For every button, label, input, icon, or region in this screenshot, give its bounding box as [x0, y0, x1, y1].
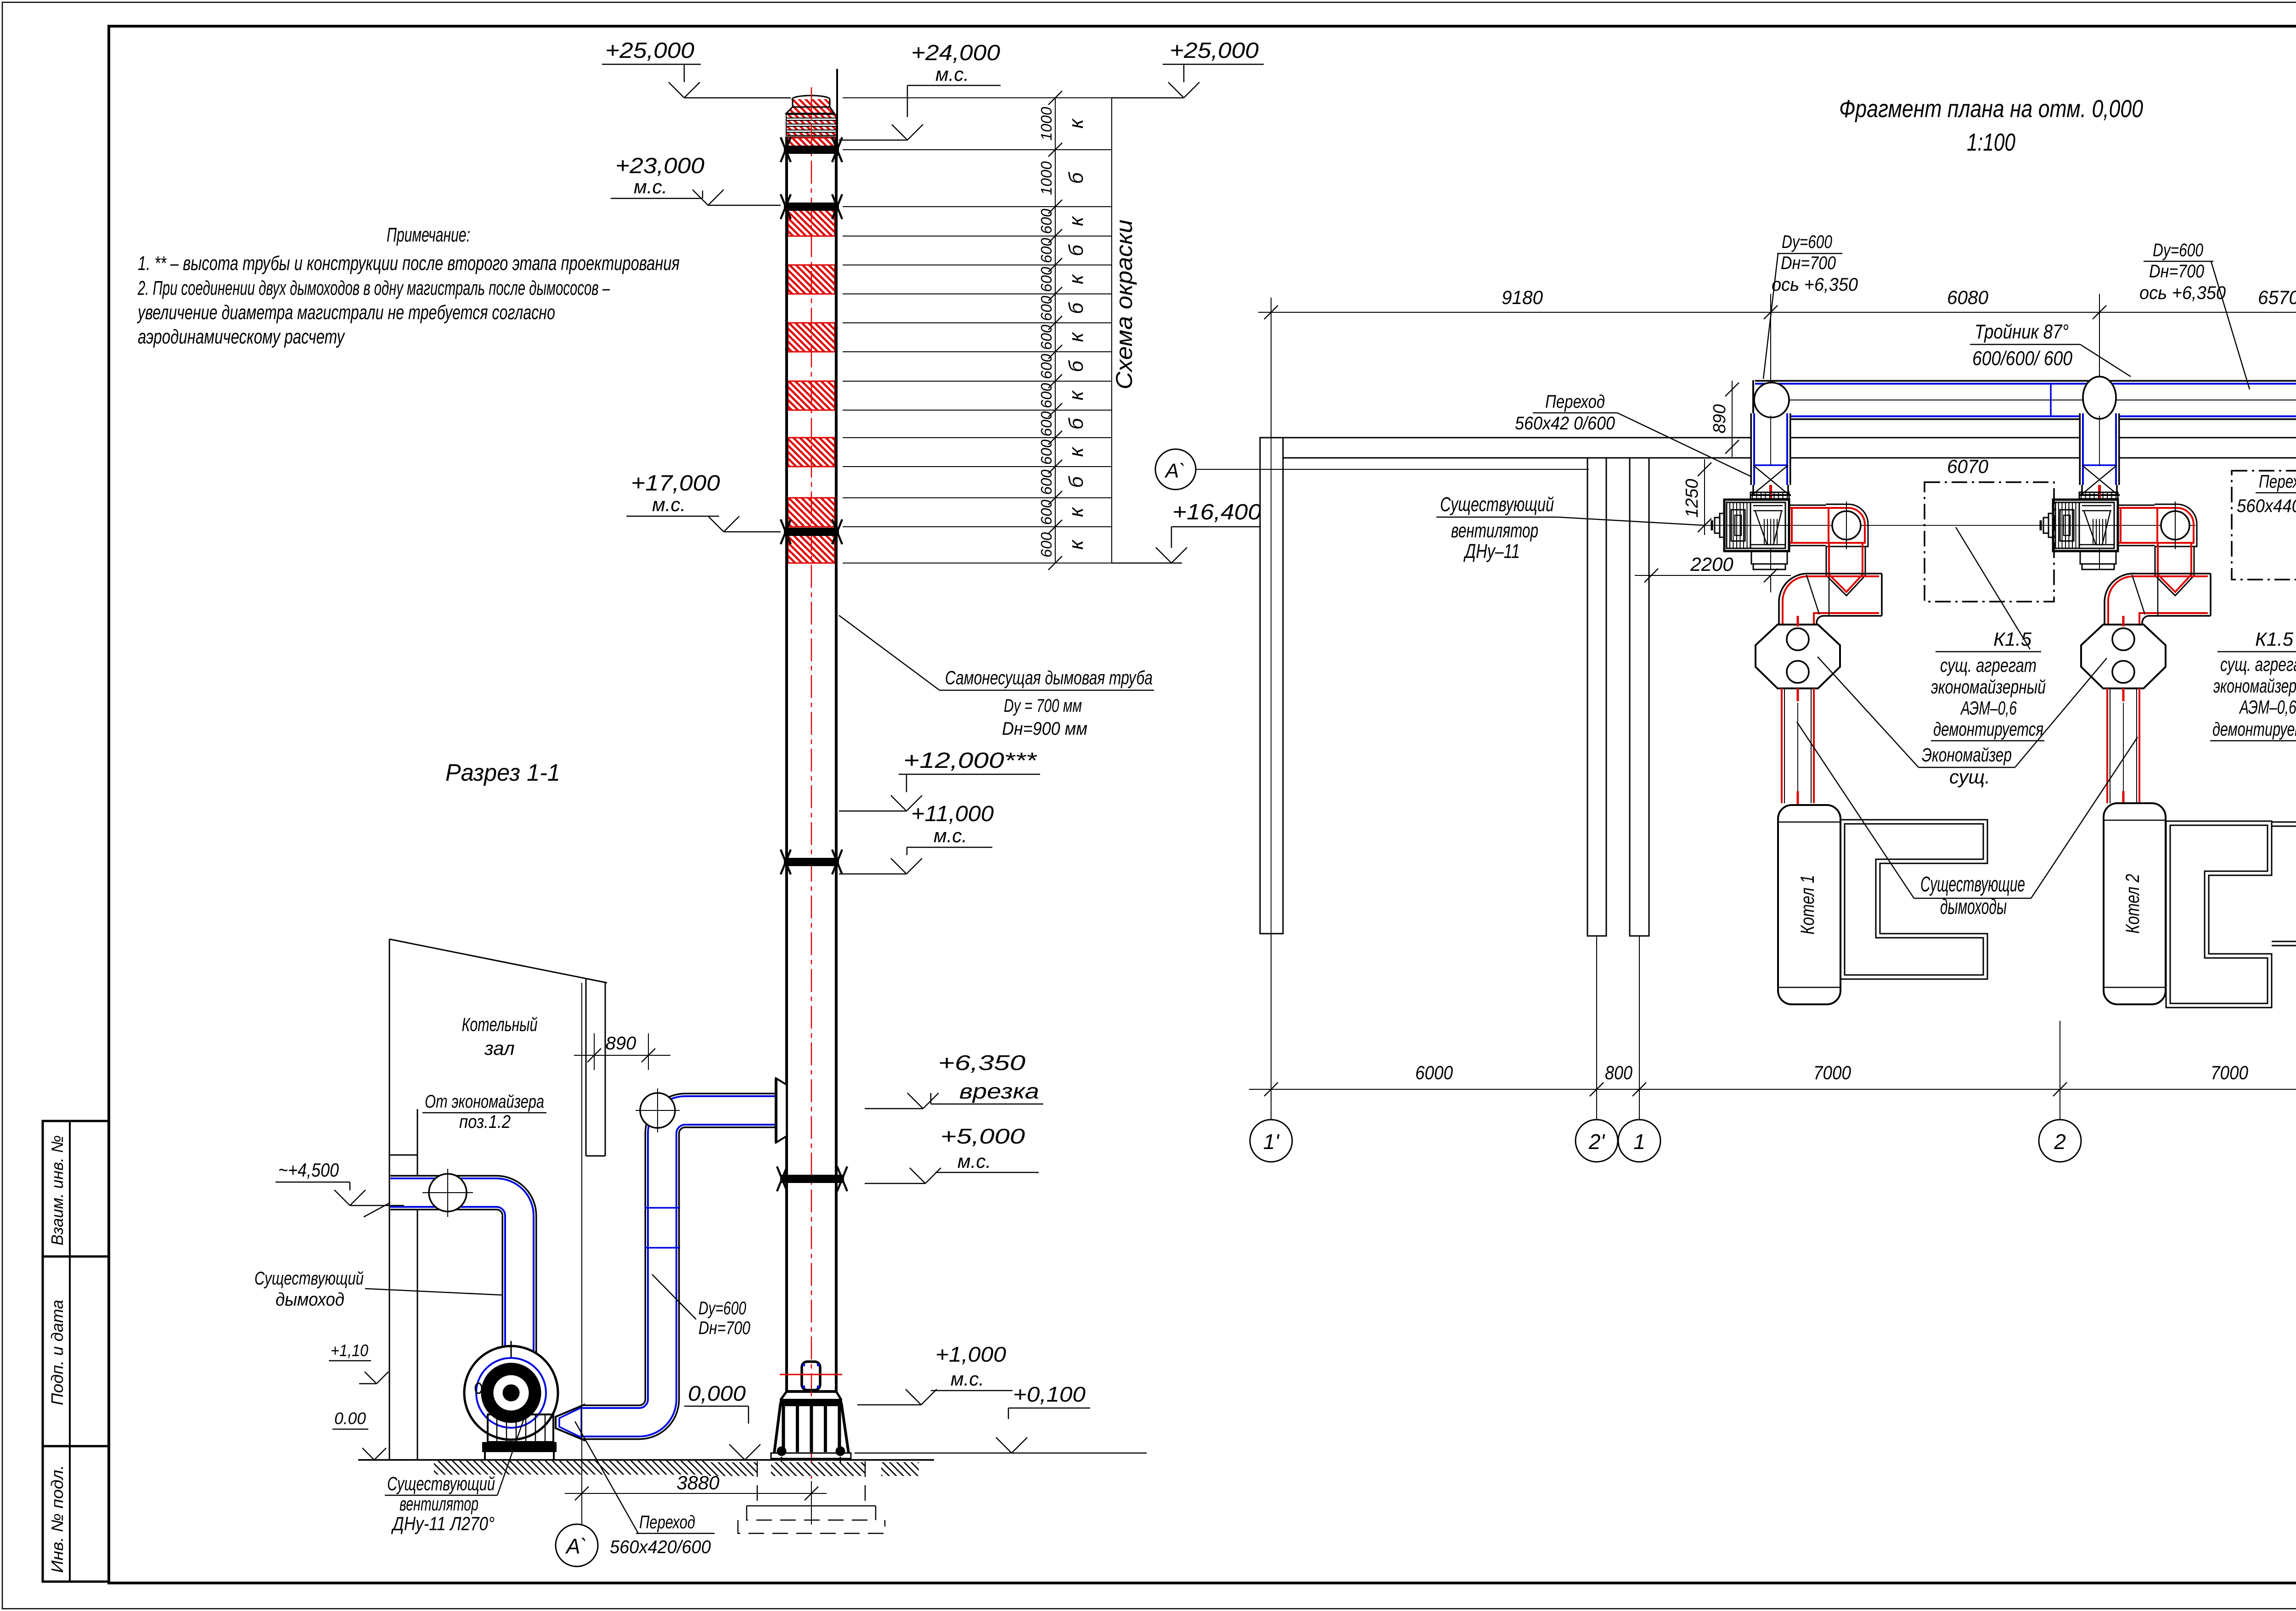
svg-text:Разрез 1-1: Разрез 1-1	[445, 760, 560, 786]
svg-text:Переход: Переход	[1545, 392, 1605, 412]
dim 2200 (plan)	[1635, 575, 1791, 576]
svg-text:Переход: Переход	[639, 1512, 695, 1532]
duct joint ticks (plan)	[2050, 383, 2052, 417]
svg-text:890: 890	[1710, 404, 1729, 433]
economizer octagon	[2081, 625, 2166, 688]
svg-text:600/600/ 600: 600/600/ 600	[1972, 347, 2072, 370]
svg-text:560x42 0/600: 560x42 0/600	[1515, 413, 1615, 434]
svg-text:600: 600	[1038, 383, 1055, 408]
chimney base lattice legs	[782, 1406, 785, 1452]
chimney access door	[802, 1362, 820, 1390]
svg-text:600: 600	[1038, 295, 1055, 321]
red duct from fan to elbow	[2119, 505, 2155, 506]
red elbow box to economizer	[1779, 574, 1882, 625]
chimney top cap: rim ellipse	[792, 96, 830, 103]
svg-text:Подп. и дата: Подп. и дата	[48, 1300, 67, 1405]
svg-text:к: к	[1065, 332, 1087, 342]
svg-text:Dн=700: Dн=700	[1781, 253, 1836, 273]
svg-text:560x440/600: 560x440/600	[2237, 496, 2296, 516]
chimney centerline (red dash-dot)	[811, 87, 812, 1481]
svg-text:экономайзерный: экономайзерный	[1931, 676, 2046, 698]
svg-text:Dн=700: Dн=700	[698, 1318, 750, 1338]
svg-text:6000: 6000	[1415, 1062, 1453, 1083]
svg-text:ось +6,350: ось +6,350	[2139, 283, 2226, 303]
svg-text:м.с.: м.с.	[935, 63, 969, 85]
duct joint ticks	[645, 1207, 680, 1209]
svg-text:Взаим. инв. №: Взаим. инв. №	[48, 1135, 67, 1245]
fan bottom flange	[1751, 551, 1787, 564]
dim 3880 (section, foundation)	[811, 1481, 812, 1509]
svg-text:+24,000: +24,000	[911, 41, 1000, 65]
main horizontal flue duct to chimney (blue)	[1755, 257, 2296, 400]
svg-text:600: 600	[1038, 469, 1055, 495]
left wall bar	[1260, 438, 1283, 934]
chimney base band	[780, 1399, 842, 1406]
svg-text:дымоход: дымоход	[276, 1290, 344, 1310]
svg-text:к: к	[1065, 274, 1087, 284]
duct axis centerline	[1771, 400, 2296, 400]
elbow circle at riser 1	[1754, 383, 1789, 417]
svg-text:+11,000: +11,000	[911, 802, 994, 826]
svg-text:600: 600	[1038, 411, 1055, 437]
svg-text:Существующие: Существующие	[1920, 872, 2025, 896]
svg-text:+25,000: +25,000	[605, 39, 694, 63]
dashed square Perekhod 560x440/600	[2232, 471, 2296, 580]
axis line A-prime (section)	[581, 983, 582, 1524]
axis 1 line and circle	[1639, 936, 1640, 1120]
axis 1prime line and circle	[1271, 298, 1272, 438]
svg-text:7000: 7000	[1813, 1062, 1851, 1083]
axis circle A-prime (section bottom)	[556, 1524, 598, 1566]
red duct pair to boiler	[2106, 688, 2108, 803]
svg-text:увеличение диаметра магистрали: увеличение диаметра магистрали не требуе…	[137, 301, 555, 324]
svg-text:2. При соединении двух дымоход: 2. При соединении двух дымоходов в одну …	[137, 277, 610, 299]
svg-text:вентилятор: вентилятор	[400, 1493, 478, 1515]
svg-text:Dy=600: Dy=600	[2153, 240, 2203, 260]
svg-text:А`: А`	[565, 1534, 587, 1558]
stamp box Podp i data	[43, 1256, 109, 1446]
svg-text:+0,100: +0,100	[1013, 1382, 1086, 1406]
svg-text:Примечание:: Примечание:	[387, 224, 470, 246]
svg-text:аэродинамическому расчету: аэродинамическому расчету	[138, 326, 345, 348]
svg-text:6070: 6070	[1947, 456, 1989, 477]
svg-text:+6,350: +6,350	[938, 1051, 1026, 1075]
svg-text:б: б	[1065, 475, 1087, 488]
chimney red/white paint stripes	[788, 138, 835, 150]
svg-text:б: б	[1065, 244, 1087, 256]
svg-text:+16,400: +16,400	[1172, 500, 1261, 524]
building inner wall line	[417, 1109, 418, 1460]
chimney base plate	[771, 1453, 851, 1459]
svg-text:б: б	[1065, 360, 1087, 372]
dim 890 (section)	[594, 1033, 595, 1070]
svg-text:к: к	[1065, 118, 1087, 129]
svg-text:ДНу–11: ДНу–11	[1463, 540, 1520, 563]
svg-text:Существующий: Существующий	[1440, 493, 1554, 516]
svg-text:2': 2'	[1588, 1130, 1606, 1154]
svg-text:демонтируется: демонтируется	[1933, 718, 2043, 740]
svg-text:к: к	[1065, 390, 1087, 400]
svg-text:К1.5: К1.5	[2255, 628, 2294, 650]
common fan axis line through both fans	[1704, 525, 2195, 526]
blue riser duct down to fan	[1750, 413, 1791, 485]
svg-text:+23,000: +23,000	[615, 154, 704, 178]
red duct pair to boiler	[1781, 688, 1783, 803]
svg-text:Dн=700: Dн=700	[2149, 261, 2204, 282]
svg-text:560x420/600: 560x420/600	[610, 1537, 711, 1557]
red duct from fan to elbow	[1790, 505, 1826, 506]
svg-text:Экономайзер: Экономайзер	[1922, 744, 2012, 766]
tee circle outline (over duct)	[2083, 377, 2116, 419]
red elbow with circle	[1826, 504, 1868, 546]
svg-text:вентилятор: вентилятор	[1451, 519, 1538, 542]
chimney flange band at +23 level	[784, 203, 839, 211]
svg-text:0.00: 0.00	[334, 1409, 366, 1428]
svg-text:600: 600	[1038, 208, 1055, 234]
svg-text:ось +6,350: ось +6,350	[1772, 275, 1858, 295]
svg-text:600: 600	[1038, 324, 1055, 350]
svg-text:6570: 6570	[2258, 287, 2296, 308]
svg-text:м.с.: м.с.	[957, 1150, 991, 1172]
svg-text:м.с.: м.с.	[934, 825, 967, 846]
fan outlet transition piece	[556, 1405, 584, 1440]
svg-text:АЭМ–0,6: АЭМ–0,6	[1960, 697, 2017, 719]
economizer duct elbow circle	[429, 1174, 467, 1211]
svg-text:+5,000: +5,000	[940, 1124, 1025, 1148]
svg-text:2200: 2200	[1690, 553, 1733, 575]
blue riser duct down to fan	[2079, 413, 2120, 485]
svg-text:2: 2	[2054, 1130, 2066, 1154]
stamp box Inv No podl	[43, 1446, 109, 1582]
leader from label box 1	[1956, 527, 2030, 649]
svg-text:+1,000: +1,000	[935, 1342, 1006, 1366]
svg-text:сущ.: сущ.	[1949, 766, 1990, 788]
svg-text:+17,000: +17,000	[631, 471, 720, 496]
fan scroll section	[1750, 502, 1785, 548]
economizer octagon	[1756, 625, 1840, 688]
painting scheme chain: vertical lines	[1055, 98, 1056, 563]
svg-text:+25,000: +25,000	[1170, 39, 1259, 63]
svg-text:к: к	[1065, 215, 1087, 226]
duct elbow circle at top	[640, 1093, 675, 1128]
svg-text:б: б	[1065, 417, 1087, 429]
svg-text:Dy = 700 мм: Dy = 700 мм	[1004, 696, 1082, 716]
svg-text:800: 800	[1605, 1062, 1633, 1083]
wall break diagonal at duct pass	[364, 1187, 420, 1217]
axis 2 line and circle	[2060, 1021, 2060, 1120]
top dimension line of plan	[1258, 312, 2296, 313]
axis circle A-prime (plan)	[1155, 449, 1196, 490]
svg-text:врезка: врезка	[959, 1079, 1039, 1103]
svg-text:1000: 1000	[1038, 107, 1055, 141]
existing flue E-shape 2	[2166, 821, 2272, 1008]
svg-text:дымоходы: дымоходы	[1940, 895, 2007, 918]
painting scheme chain: rung lines	[843, 97, 1112, 98]
svg-text:б: б	[1065, 302, 1087, 314]
svg-text:сущ. агрегат: сущ. агрегат	[1940, 654, 2037, 676]
vrezka transition into chimney	[776, 1078, 787, 1143]
svg-text:К1.5: К1.5	[1993, 628, 2032, 650]
svg-text:600: 600	[1038, 439, 1055, 465]
chimney top cap: upper cylinder	[793, 99, 830, 107]
fan (plan view)	[2079, 492, 2118, 499]
fan bottom flange	[2080, 551, 2116, 564]
chimney flange band at +5 level	[780, 1175, 844, 1183]
svg-text:7000: 7000	[2211, 1062, 2249, 1083]
svg-text:9180: 9180	[1502, 287, 1543, 308]
svg-text:АЭМ–0,6: АЭМ–0,6	[2239, 696, 2296, 718]
interior column bar (axis 2prime)	[1587, 458, 1606, 936]
svg-text:1': 1'	[1263, 1130, 1280, 1154]
svg-text:Тройник 87°: Тройник 87°	[1975, 321, 2069, 343]
svg-text:демонтируется: демонтируется	[2212, 718, 2296, 740]
svg-text:Переход: Переход	[2259, 472, 2296, 492]
svg-text:Схема окраски: Схема окраски	[1111, 220, 1137, 389]
chimney side edges re-stroke	[785, 138, 788, 1391]
duct from economizer into fan (blue)	[390, 1193, 519, 1358]
tee circle at riser 2	[2083, 377, 2116, 419]
transition funnel (red V)	[2155, 575, 2194, 596]
svg-text:м.с.: м.с.	[634, 176, 667, 197]
svg-text:Инв. № подл.: Инв. № подл.	[48, 1465, 67, 1573]
dim 6070 on wall line	[1764, 440, 1778, 454]
top wall line (outer)	[1260, 437, 2296, 439]
svg-text:600: 600	[1038, 499, 1055, 525]
svg-text:м.с.: м.с.	[652, 494, 686, 515]
dashed square K1.5 (boiler 1)	[1925, 482, 2054, 602]
stamp box Vzaim inv No	[43, 1121, 109, 1256]
fan inlet nozzle	[1720, 513, 1724, 537]
fan (plan view)	[1750, 492, 1789, 499]
chimney flange band at +11 level	[784, 858, 839, 866]
svg-text:600: 600	[1038, 532, 1055, 558]
ground line at chimney	[702, 1459, 934, 1461]
svg-text:890: 890	[606, 1033, 636, 1053]
chimney flange band at +24 level	[784, 146, 839, 154]
riser transition with X cross	[2082, 464, 2117, 466]
chimney foundation (dashed)	[757, 1461, 758, 1506]
svg-text:+1,10: +1,10	[331, 1341, 368, 1360]
red elbow with circle	[2155, 504, 2197, 546]
svg-text:Фрагмент плана на отм. 0,000: Фрагмент плана на отм. 0,000	[1839, 95, 2143, 123]
chimney top cap: flare	[786, 107, 834, 113]
svg-text:6080: 6080	[1947, 287, 1989, 308]
fan inlet nozzle	[2048, 513, 2053, 537]
bottom dimension line of plan	[1249, 1089, 2296, 1090]
svg-text:Существующий: Существующий	[254, 1268, 364, 1289]
fan motor section	[1727, 502, 1750, 548]
chimney base skirt sides	[781, 1391, 787, 1400]
svg-text:1:100: 1:100	[1967, 129, 2015, 156]
svg-text:Dн=900 мм: Dн=900 мм	[1002, 719, 1087, 739]
top wall line (inner)	[1283, 457, 2296, 459]
svg-text:Dy=600: Dy=600	[698, 1298, 746, 1318]
existing smoke fan (scroll)	[464, 1346, 558, 1440]
axis 1-prime line inside wall bar	[1271, 438, 1272, 934]
svg-text:1250: 1250	[1683, 479, 1702, 518]
building outer wall	[389, 939, 390, 1460]
svg-text:Котел 2: Котел 2	[2122, 874, 2143, 934]
red duct down from elbow	[2155, 546, 2156, 575]
ground line under building	[358, 1459, 702, 1461]
fan support frame	[488, 1414, 553, 1442]
existing flue E-shape 1	[1840, 820, 1987, 979]
interior column bar (axis 1)	[1630, 458, 1649, 936]
svg-text:поз.1.2: поз.1.2	[459, 1112, 511, 1132]
chimney body outline	[787, 138, 836, 1391]
painting scheme chain: ticks	[1048, 91, 1062, 105]
svg-text:экономайзерный: экономайзерный	[2213, 675, 2296, 697]
svg-text:1: 1	[1633, 1130, 1645, 1154]
chimney top cap: corrugated rings	[786, 114, 836, 118]
svg-text:сущ. агрегат: сущ. агрегат	[2220, 653, 2296, 675]
svg-text:м.с.: м.с.	[951, 1368, 984, 1390]
red elbow box to economizer	[2105, 574, 2211, 625]
svg-text:600: 600	[1038, 266, 1055, 292]
red duct down from elbow	[1826, 546, 1827, 575]
svg-text:ДНу-11 Л270°: ДНу-11 Л270°	[391, 1513, 495, 1534]
svg-text:Dy=600: Dy=600	[1782, 232, 1832, 252]
svg-text:Котельный: Котельный	[462, 1014, 538, 1035]
duct from fan up to chimney (blue)	[582, 1110, 775, 1422]
building roof slope	[389, 939, 607, 983]
fan scroll section	[2079, 502, 2114, 548]
svg-text:+12,000***: +12,000***	[903, 749, 1037, 773]
transition funnel (red V)	[1826, 575, 1865, 596]
svg-text:600: 600	[1038, 237, 1055, 263]
boiler 1	[1778, 805, 1840, 1004]
riser transition with X cross	[1753, 464, 1788, 466]
axis 2prime line and circle	[1596, 936, 1597, 1120]
boiler 2	[2104, 803, 2166, 1004]
svg-text:б: б	[1065, 171, 1087, 184]
elbow circle outline (over duct)	[1754, 383, 1789, 417]
bottom rule of frame	[109, 1582, 2296, 1584]
fan motor section	[2055, 502, 2079, 548]
svg-text:От экономайзера: От экономайзера	[425, 1092, 544, 1112]
svg-text:~+4,500: ~+4,500	[278, 1159, 339, 1181]
dim 890 (plan)	[1732, 381, 1733, 457]
svg-text:к: к	[1065, 507, 1087, 517]
svg-text:1. ** – высота трубы и констру: 1. ** – высота трубы и конструкции после…	[138, 252, 680, 275]
svg-text:1000: 1000	[1038, 161, 1055, 195]
svg-text:600: 600	[1038, 354, 1055, 379]
dim 1250 (plan)	[1704, 459, 1705, 535]
duct shaft wall lines	[585, 979, 587, 1156]
svg-text:А`: А`	[1164, 460, 1186, 482]
svg-text:к: к	[1065, 539, 1087, 550]
ground hatch under building	[434, 1461, 709, 1475]
svg-text:3880: 3880	[676, 1472, 720, 1493]
svg-text:Существующий: Существующий	[387, 1473, 495, 1494]
svg-text:Котел 1: Котел 1	[1796, 875, 1818, 935]
chimney flange band at +17 level	[784, 528, 839, 536]
svg-text:к: к	[1065, 446, 1087, 457]
flue connections extending right from E2	[2272, 822, 2296, 823]
svg-text:Самонесущая дымовая труба: Самонесущая дымовая труба	[945, 667, 1153, 688]
svg-text:зал: зал	[484, 1037, 515, 1059]
top extension line at chimney right edge	[836, 69, 838, 156]
svg-text:0,000: 0,000	[688, 1381, 746, 1405]
